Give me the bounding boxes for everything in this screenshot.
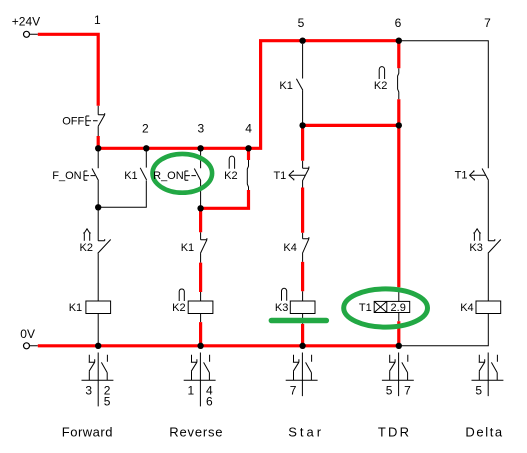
svg-text:Star: Star <box>288 424 324 439</box>
svg-text:3: 3 <box>85 384 92 398</box>
svg-text:6: 6 <box>206 394 213 408</box>
svg-text:2.9: 2.9 <box>391 302 406 314</box>
svg-text:0V: 0V <box>20 327 35 341</box>
svg-text:T1: T1 <box>273 170 286 182</box>
svg-text:OFF: OFF <box>62 116 84 128</box>
svg-text:K1: K1 <box>124 170 137 182</box>
svg-text:K2: K2 <box>80 242 93 254</box>
svg-text:K4: K4 <box>283 242 296 254</box>
svg-text:Reverse: Reverse <box>169 424 223 439</box>
svg-text:K3: K3 <box>469 242 482 254</box>
svg-text:K1: K1 <box>279 80 292 92</box>
svg-text:7: 7 <box>290 384 297 398</box>
svg-text:Forward: Forward <box>62 424 113 439</box>
svg-text:7: 7 <box>404 384 411 398</box>
svg-text:K2: K2 <box>224 170 237 182</box>
svg-text:4: 4 <box>245 122 252 136</box>
svg-text:1: 1 <box>94 13 101 27</box>
svg-text:R_ON: R_ON <box>153 170 184 182</box>
svg-text:2: 2 <box>142 122 149 136</box>
svg-text:6: 6 <box>395 16 402 30</box>
svg-text:3: 3 <box>198 122 205 136</box>
svg-text:K2: K2 <box>374 80 387 92</box>
svg-text:5: 5 <box>386 384 393 398</box>
svg-text:TDR: TDR <box>378 424 411 439</box>
svg-text:T1: T1 <box>359 302 372 314</box>
svg-text:F_ON: F_ON <box>52 170 81 182</box>
svg-text:+24V: +24V <box>12 15 40 29</box>
svg-text:7: 7 <box>484 16 491 30</box>
svg-text:K2: K2 <box>172 302 185 314</box>
svg-text:T1: T1 <box>455 170 468 182</box>
svg-text:K1: K1 <box>181 242 194 254</box>
svg-text:K4: K4 <box>460 302 473 314</box>
svg-text:K1: K1 <box>69 302 82 314</box>
svg-text:K3: K3 <box>275 302 288 314</box>
svg-text:5: 5 <box>104 394 111 408</box>
svg-text:Delta: Delta <box>465 424 503 439</box>
svg-text:5: 5 <box>298 16 305 30</box>
svg-text:1: 1 <box>188 384 195 398</box>
svg-text:5: 5 <box>475 384 482 398</box>
